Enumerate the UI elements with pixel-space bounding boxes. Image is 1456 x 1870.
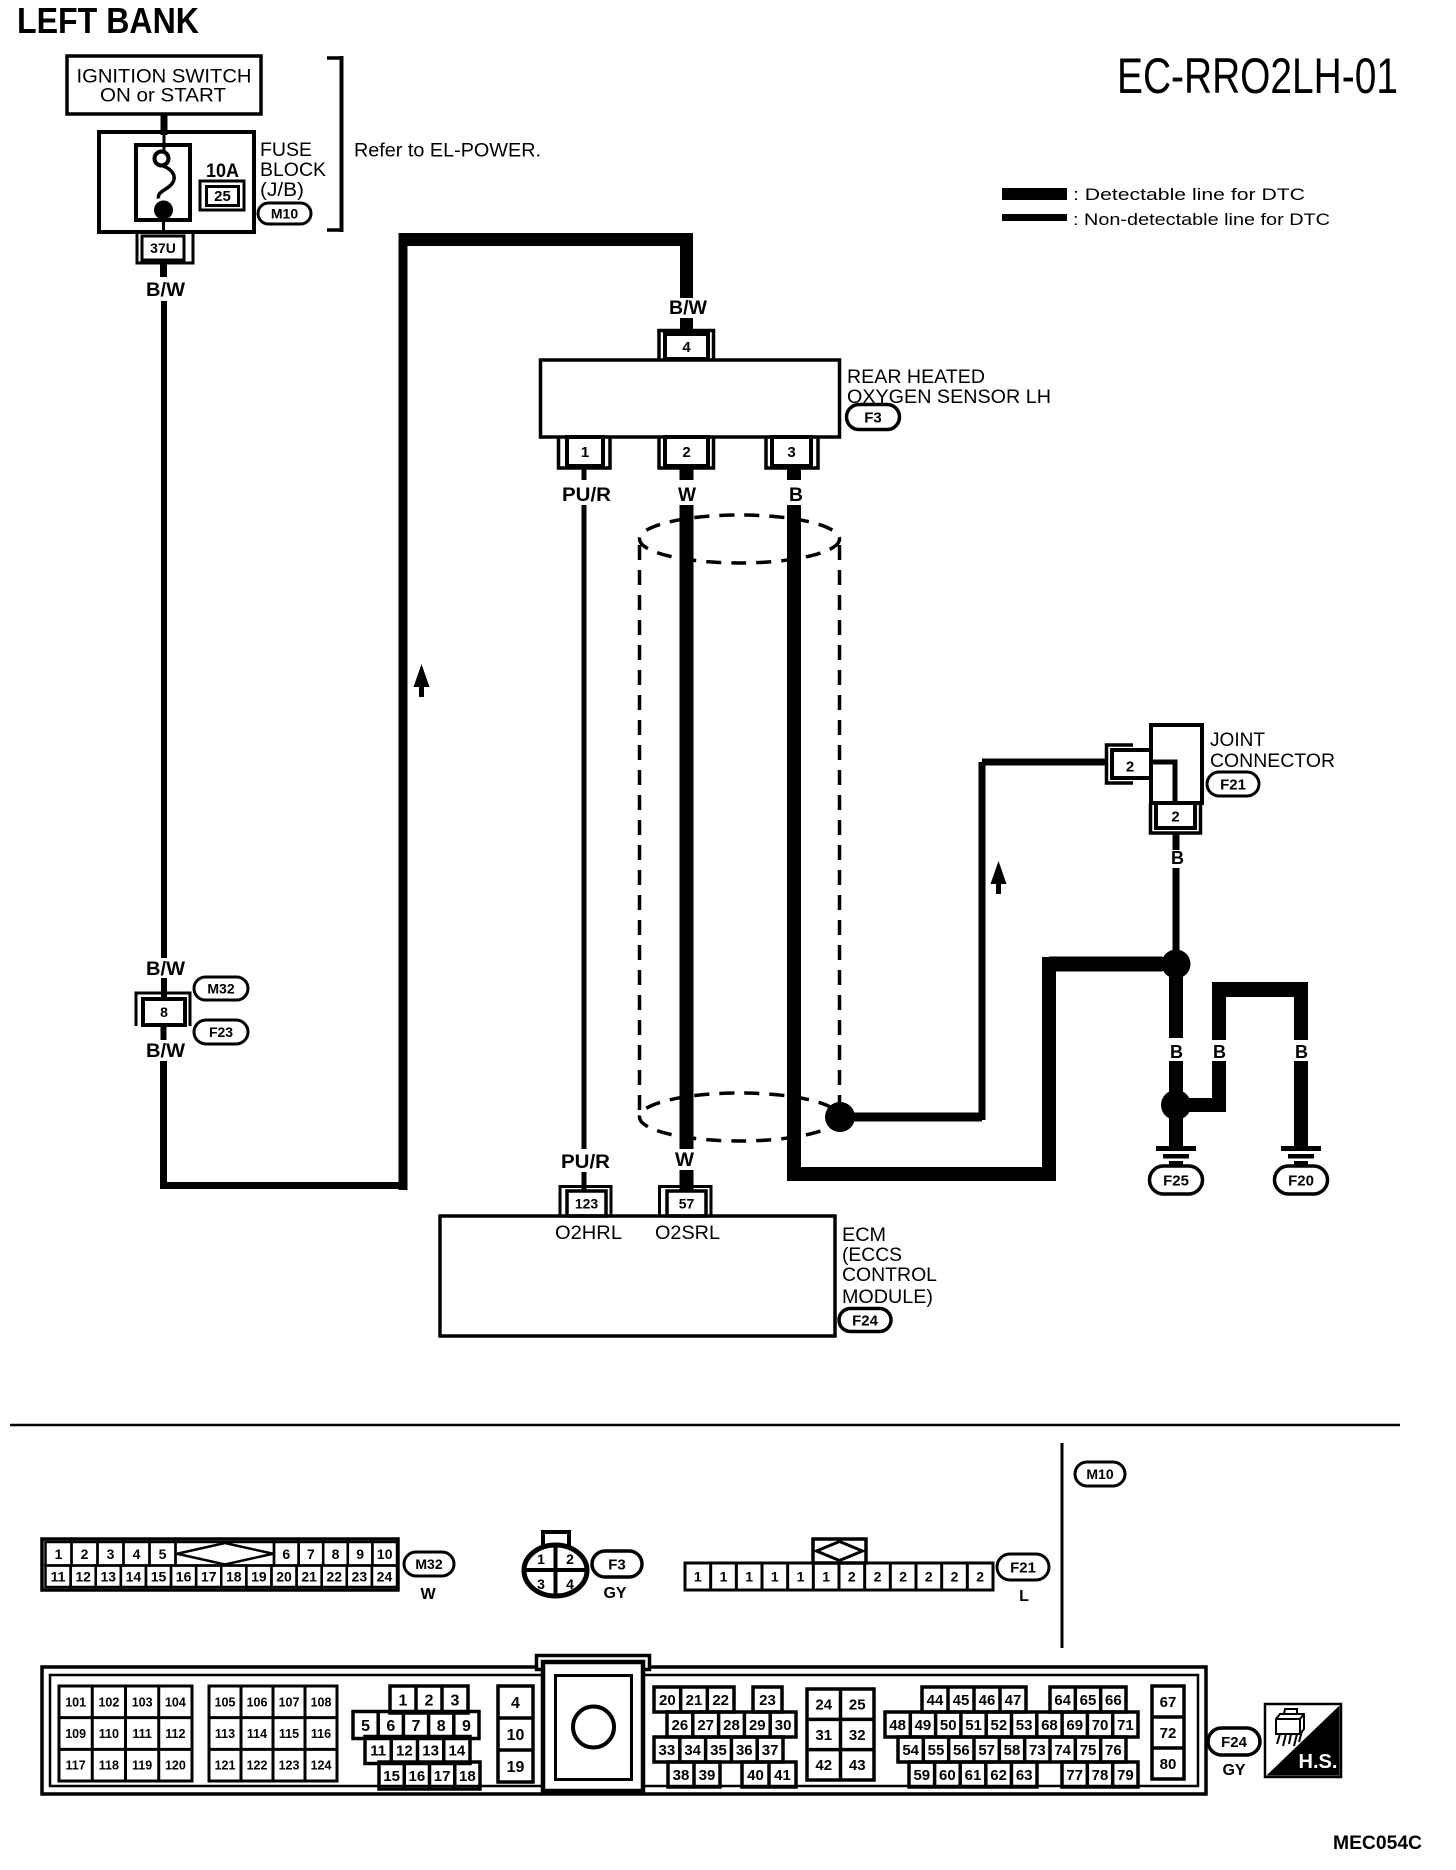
svg-text:24: 24	[377, 1568, 393, 1584]
svg-text:114: 114	[247, 1727, 267, 1741]
svg-text:37U: 37U	[150, 240, 176, 256]
svg-text:27: 27	[697, 1717, 714, 1734]
svg-text:115: 115	[279, 1727, 299, 1741]
svg-text:17: 17	[201, 1568, 217, 1584]
svg-text:58: 58	[1004, 1742, 1021, 1759]
svg-text:19: 19	[251, 1568, 267, 1584]
svg-text:F24: F24	[1221, 1734, 1248, 1751]
svg-text:2: 2	[682, 444, 690, 461]
svg-text:MEC054C: MEC054C	[1333, 1833, 1422, 1854]
svg-text:8: 8	[332, 1546, 340, 1562]
svg-text:GY: GY	[1222, 1762, 1245, 1779]
svg-text:34: 34	[684, 1742, 701, 1759]
svg-text:21: 21	[686, 1692, 703, 1709]
svg-text:14: 14	[126, 1568, 142, 1584]
svg-text:6: 6	[386, 1718, 395, 1735]
svg-text:73: 73	[1029, 1742, 1046, 1759]
svg-text:1: 1	[537, 1551, 545, 1567]
svg-text:2: 2	[976, 1569, 984, 1585]
svg-text:30: 30	[775, 1717, 792, 1734]
svg-text:111: 111	[132, 1727, 152, 1741]
svg-text:20: 20	[659, 1692, 676, 1709]
svg-text:H.S.: H.S.	[1299, 1751, 1338, 1773]
svg-text:1: 1	[581, 444, 589, 461]
svg-text:2: 2	[925, 1569, 933, 1585]
svg-text:1: 1	[399, 1692, 408, 1709]
svg-text:64: 64	[1054, 1692, 1071, 1709]
svg-text:10A: 10A	[206, 161, 239, 182]
svg-text:123: 123	[575, 1196, 599, 1212]
svg-text:19: 19	[507, 1759, 525, 1776]
svg-text:1: 1	[771, 1569, 779, 1585]
svg-text:121: 121	[215, 1759, 236, 1773]
svg-text:49: 49	[915, 1717, 932, 1734]
svg-text:REAR HEATED: REAR HEATED	[847, 367, 985, 388]
svg-text:2: 2	[81, 1546, 89, 1562]
svg-text:LEFT BANK: LEFT BANK	[17, 0, 199, 41]
svg-text:F24: F24	[852, 1312, 879, 1329]
svg-text:67: 67	[1160, 1694, 1177, 1711]
svg-text:M10: M10	[1086, 1466, 1113, 1482]
svg-text:B/W: B/W	[146, 958, 186, 980]
svg-text:104: 104	[165, 1695, 186, 1709]
svg-text:B: B	[1295, 1042, 1308, 1062]
svg-text:2: 2	[425, 1692, 434, 1709]
svg-text:14: 14	[449, 1742, 466, 1759]
svg-text:F21: F21	[1010, 1559, 1036, 1576]
svg-text:25: 25	[849, 1697, 866, 1714]
svg-text:PU/R: PU/R	[561, 1152, 610, 1173]
svg-text:78: 78	[1092, 1767, 1109, 1784]
svg-text:116: 116	[311, 1727, 331, 1741]
svg-text:105: 105	[215, 1695, 236, 1709]
svg-text:4: 4	[682, 339, 691, 356]
svg-text:59: 59	[913, 1767, 930, 1784]
svg-text:2: 2	[566, 1551, 574, 1567]
svg-text:35: 35	[710, 1742, 727, 1759]
svg-text:23: 23	[759, 1692, 776, 1709]
svg-text:76: 76	[1105, 1742, 1122, 1759]
svg-text:52: 52	[991, 1717, 1008, 1734]
svg-text:18: 18	[459, 1768, 476, 1785]
svg-text:24: 24	[815, 1697, 832, 1714]
svg-text:47: 47	[1005, 1692, 1022, 1709]
svg-text:12: 12	[396, 1742, 413, 1759]
svg-text:74: 74	[1054, 1742, 1071, 1759]
svg-text:5: 5	[159, 1546, 167, 1562]
svg-text:71: 71	[1117, 1717, 1134, 1734]
svg-text:B: B	[789, 485, 803, 506]
svg-text:O2SRL: O2SRL	[655, 1223, 720, 1244]
svg-text:3: 3	[537, 1576, 545, 1592]
svg-text:29: 29	[749, 1717, 766, 1734]
svg-text:33: 33	[659, 1742, 676, 1759]
svg-text:M10: M10	[271, 206, 298, 222]
svg-text:44: 44	[927, 1692, 944, 1709]
svg-text:4: 4	[511, 1695, 520, 1712]
svg-text:68: 68	[1041, 1717, 1058, 1734]
svg-text:39: 39	[699, 1767, 716, 1784]
svg-text:20: 20	[276, 1568, 292, 1584]
svg-text:5: 5	[361, 1718, 370, 1735]
svg-text:45: 45	[953, 1692, 970, 1709]
svg-text:22: 22	[712, 1692, 729, 1709]
svg-text:15: 15	[383, 1768, 400, 1785]
svg-text:B: B	[1213, 1042, 1226, 1062]
svg-text:W: W	[420, 1586, 436, 1603]
svg-text:16: 16	[176, 1568, 192, 1584]
svg-text:43: 43	[849, 1757, 866, 1774]
svg-text:2: 2	[899, 1569, 907, 1585]
svg-text:B/W: B/W	[146, 1040, 186, 1062]
svg-text:124: 124	[311, 1759, 332, 1773]
svg-text:21: 21	[301, 1568, 317, 1584]
svg-text:3: 3	[787, 444, 795, 461]
svg-text:32: 32	[849, 1727, 866, 1744]
svg-text:1: 1	[694, 1569, 702, 1585]
svg-text:8: 8	[160, 1004, 168, 1020]
svg-text:102: 102	[98, 1695, 119, 1709]
svg-text:2: 2	[951, 1569, 959, 1585]
svg-text:L: L	[1019, 1588, 1029, 1605]
svg-text:61: 61	[965, 1767, 982, 1784]
svg-text:MODULE): MODULE)	[842, 1287, 933, 1308]
svg-text:JOINT: JOINT	[1210, 730, 1265, 751]
svg-text:B: B	[1170, 1042, 1183, 1062]
svg-text:36: 36	[736, 1742, 753, 1759]
svg-text:B/W: B/W	[669, 297, 708, 319]
svg-text:72: 72	[1160, 1725, 1177, 1742]
svg-text:60: 60	[939, 1767, 956, 1784]
svg-text:1: 1	[720, 1569, 728, 1585]
svg-text:54: 54	[902, 1742, 919, 1759]
svg-text:7: 7	[307, 1546, 315, 1562]
svg-text:55: 55	[928, 1742, 945, 1759]
svg-text:25: 25	[214, 188, 231, 205]
svg-text:117: 117	[66, 1759, 86, 1773]
svg-text:69: 69	[1066, 1717, 1083, 1734]
svg-text:: Non-detectable line for DTC: : Non-detectable line for DTC	[1073, 210, 1330, 229]
svg-text:113: 113	[215, 1727, 235, 1741]
svg-text:F25: F25	[1163, 1172, 1189, 1189]
svg-text:Refer to EL-POWER.: Refer to EL-POWER.	[354, 141, 541, 162]
svg-text:3: 3	[451, 1692, 460, 1709]
svg-text:101: 101	[65, 1695, 86, 1709]
svg-text:: Detectable line for DTC: : Detectable line for DTC	[1073, 185, 1305, 204]
svg-text:37: 37	[762, 1742, 779, 1759]
svg-text:4: 4	[133, 1546, 141, 1562]
svg-text:10: 10	[377, 1546, 393, 1562]
svg-text:53: 53	[1016, 1717, 1033, 1734]
svg-text:8: 8	[437, 1718, 446, 1735]
svg-text:38: 38	[673, 1767, 690, 1784]
svg-text:17: 17	[434, 1768, 451, 1785]
svg-text:9: 9	[462, 1718, 471, 1735]
svg-text:9: 9	[356, 1546, 364, 1562]
svg-text:80: 80	[1160, 1756, 1177, 1773]
svg-text:3: 3	[107, 1546, 115, 1562]
svg-text:120: 120	[165, 1759, 186, 1773]
svg-text:2: 2	[1171, 808, 1179, 825]
svg-text:31: 31	[815, 1727, 832, 1744]
svg-text:BLOCK: BLOCK	[260, 160, 326, 181]
svg-text:112: 112	[165, 1727, 185, 1741]
svg-text:CONNECTOR: CONNECTOR	[1210, 751, 1335, 772]
svg-text:GY: GY	[603, 1585, 626, 1602]
svg-text:50: 50	[940, 1717, 957, 1734]
svg-text:F3: F3	[864, 409, 882, 426]
svg-text:4: 4	[566, 1576, 574, 1592]
svg-text:10: 10	[507, 1727, 525, 1744]
svg-text:66: 66	[1105, 1692, 1122, 1709]
svg-text:11: 11	[51, 1568, 66, 1584]
svg-text:11: 11	[370, 1742, 386, 1759]
svg-text:110: 110	[99, 1727, 119, 1741]
svg-text:70: 70	[1092, 1717, 1109, 1734]
svg-text:ECM: ECM	[842, 1225, 886, 1246]
svg-text:2: 2	[848, 1569, 856, 1585]
svg-text:23: 23	[352, 1568, 368, 1584]
svg-text:1: 1	[797, 1569, 805, 1585]
svg-text:PU/R: PU/R	[562, 485, 611, 506]
svg-text:F20: F20	[1288, 1172, 1314, 1189]
svg-text:40: 40	[747, 1767, 764, 1784]
svg-text:108: 108	[311, 1695, 332, 1709]
svg-text:(J/B): (J/B)	[260, 180, 304, 201]
svg-text:O2HRL: O2HRL	[555, 1223, 622, 1244]
svg-text:M32: M32	[207, 981, 234, 997]
svg-text:6: 6	[282, 1546, 290, 1562]
svg-text:1: 1	[745, 1569, 753, 1585]
svg-text:107: 107	[279, 1695, 300, 1709]
svg-text:106: 106	[247, 1695, 268, 1709]
svg-text:16: 16	[409, 1768, 426, 1785]
svg-text:62: 62	[990, 1767, 1007, 1784]
svg-text:122: 122	[247, 1759, 268, 1773]
svg-text:1: 1	[55, 1546, 63, 1562]
svg-text:M32: M32	[415, 1556, 442, 1572]
svg-text:46: 46	[979, 1692, 996, 1709]
svg-text:22: 22	[326, 1568, 342, 1584]
svg-text:15: 15	[151, 1568, 167, 1584]
svg-text:51: 51	[965, 1717, 982, 1734]
svg-text:W: W	[675, 1150, 694, 1171]
svg-text:79: 79	[1117, 1767, 1134, 1784]
svg-text:EC-RRO2LH-01: EC-RRO2LH-01	[1117, 48, 1398, 104]
svg-text:119: 119	[132, 1759, 152, 1773]
svg-text:12: 12	[75, 1568, 91, 1584]
svg-text:18: 18	[226, 1568, 242, 1584]
svg-text:(ECCS: (ECCS	[842, 1245, 902, 1266]
svg-text:63: 63	[1016, 1767, 1033, 1784]
svg-text:77: 77	[1066, 1767, 1083, 1784]
svg-text:56: 56	[953, 1742, 970, 1759]
svg-text:F21: F21	[1220, 776, 1246, 793]
svg-text:26: 26	[672, 1717, 689, 1734]
svg-text:F23: F23	[209, 1024, 233, 1040]
svg-text:109: 109	[65, 1727, 86, 1741]
svg-text:13: 13	[100, 1568, 116, 1584]
svg-text:48: 48	[889, 1717, 906, 1734]
svg-text:F3: F3	[608, 1556, 626, 1573]
svg-text:B/W: B/W	[146, 279, 186, 301]
svg-text:57: 57	[978, 1742, 995, 1759]
svg-text:57: 57	[679, 1196, 695, 1212]
svg-text:13: 13	[422, 1742, 439, 1759]
svg-text:123: 123	[279, 1759, 300, 1773]
svg-text:103: 103	[132, 1695, 153, 1709]
svg-text:2: 2	[874, 1569, 882, 1585]
svg-text:42: 42	[815, 1757, 832, 1774]
svg-text:28: 28	[723, 1717, 740, 1734]
svg-text:B: B	[1171, 848, 1184, 868]
svg-text:ON or START: ON or START	[100, 85, 226, 107]
svg-text:CONTROL: CONTROL	[842, 1265, 937, 1286]
svg-text:41: 41	[774, 1767, 791, 1784]
svg-text:118: 118	[99, 1759, 119, 1773]
svg-text:75: 75	[1080, 1742, 1097, 1759]
svg-text:FUSE: FUSE	[260, 140, 312, 161]
svg-text:W: W	[678, 485, 696, 506]
svg-text:7: 7	[412, 1718, 421, 1735]
svg-text:65: 65	[1080, 1692, 1097, 1709]
svg-text:1: 1	[822, 1569, 830, 1585]
svg-text:2: 2	[1126, 758, 1134, 775]
